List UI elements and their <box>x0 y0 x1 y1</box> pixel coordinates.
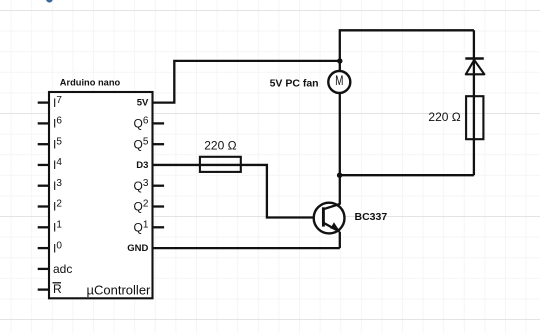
diode D1 anode triangle <box>466 60 485 74</box>
value label 220 Ohm (right resistor) <box>428 110 460 124</box>
svg-text:220 Ω: 220 Ω <box>204 138 236 152</box>
microcontroller U1 body (Arduino nano) <box>49 92 153 298</box>
wire 5V net from pin up to supply node <box>153 61 340 103</box>
svg-text:BC337: BC337 <box>355 211 388 223</box>
label 5V PC fan <box>270 77 319 89</box>
pin D3 <box>136 160 148 171</box>
svg-text:adc: adc <box>53 262 72 276</box>
junction dot collector node <box>337 173 342 178</box>
svg-text:µController: µController <box>87 282 152 297</box>
svg-text:5V PC fan: 5V PC fan <box>270 77 319 89</box>
pin I4 <box>38 157 63 172</box>
wire collector lead into transistor <box>339 175 341 204</box>
pin Q5 <box>133 136 164 151</box>
svg-text:GND: GND <box>127 243 148 254</box>
wire collector node to right branch <box>340 174 474 176</box>
pin I1 <box>38 220 63 235</box>
pin Q6 <box>133 116 164 131</box>
pin I2 <box>38 199 63 214</box>
svg-text:220 Ω: 220 Ω <box>428 110 460 124</box>
pin I5 <box>38 136 63 151</box>
wire right branch vertical <box>473 30 475 175</box>
svg-text:M: M <box>335 72 343 88</box>
pin 5V <box>137 98 149 109</box>
label µController <box>87 282 152 297</box>
wire emitter lead down to ground rail <box>339 232 341 248</box>
wire GND net from microcontroller to emitter <box>153 247 340 249</box>
transistor Q1 BC337 <box>314 203 345 234</box>
pin I7 <box>38 95 63 110</box>
pin I0 <box>38 240 63 255</box>
svg-text:R: R <box>53 282 62 296</box>
pin R (reset, active low) <box>38 282 62 296</box>
pin I3 <box>38 178 63 193</box>
resistor R1 220 ohm (base) <box>200 157 241 172</box>
junction dot supply node <box>337 58 342 63</box>
svg-text:Arduino nano: Arduino nano <box>60 78 121 88</box>
svg-text:D3: D3 <box>136 160 148 171</box>
label BC337 <box>355 211 388 223</box>
label Arduino nano <box>60 78 121 88</box>
pin GND <box>127 243 148 254</box>
motor M1 (5V PC fan) <box>328 71 350 93</box>
pin Q1 <box>133 220 164 235</box>
wire motor top lead <box>339 61 341 72</box>
pin Q2 <box>133 199 164 214</box>
pin I6 <box>38 116 63 131</box>
wire top supply rail <box>340 30 474 61</box>
wire motor bottom lead to collector node <box>339 93 341 176</box>
diode D1 cathode bar <box>465 57 484 59</box>
pin Q3 <box>133 178 164 193</box>
blue handle dot <box>47 0 53 2</box>
resistor R2 220 ohm (right branch) <box>466 96 483 139</box>
pin adc <box>38 262 73 276</box>
svg-text:5V: 5V <box>137 98 149 109</box>
wire D3 base net through resistor to transistor <box>153 165 324 218</box>
value label 220 Ohm (base resistor) <box>204 138 236 152</box>
